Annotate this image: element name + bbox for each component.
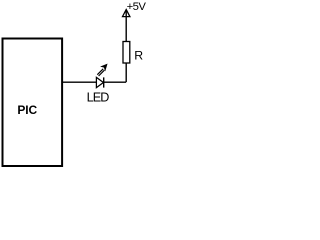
wire PIC to LED anode <box>62 81 97 83</box>
svg-text:LED: LED <box>87 91 110 105</box>
LED diode D1 triangle <box>96 77 103 87</box>
svg-text:+5V: +5V <box>127 1 147 13</box>
LED cathode bar <box>103 77 105 87</box>
power symbol +5V arrow <box>123 10 130 17</box>
node +5V supply vertical wire <box>125 10 127 82</box>
LED emission arrowhead <box>101 64 107 70</box>
resistor R <box>123 42 130 64</box>
wire LED cathode to resistor corner <box>104 81 127 83</box>
svg-text:R: R <box>134 48 143 62</box>
PIC microcontroller box U1 <box>3 39 63 167</box>
svg-text:PIC: PIC <box>17 103 37 117</box>
LED emission arrow shaft 2 <box>99 70 105 76</box>
LED emission arrow shaft 1 <box>97 69 103 75</box>
